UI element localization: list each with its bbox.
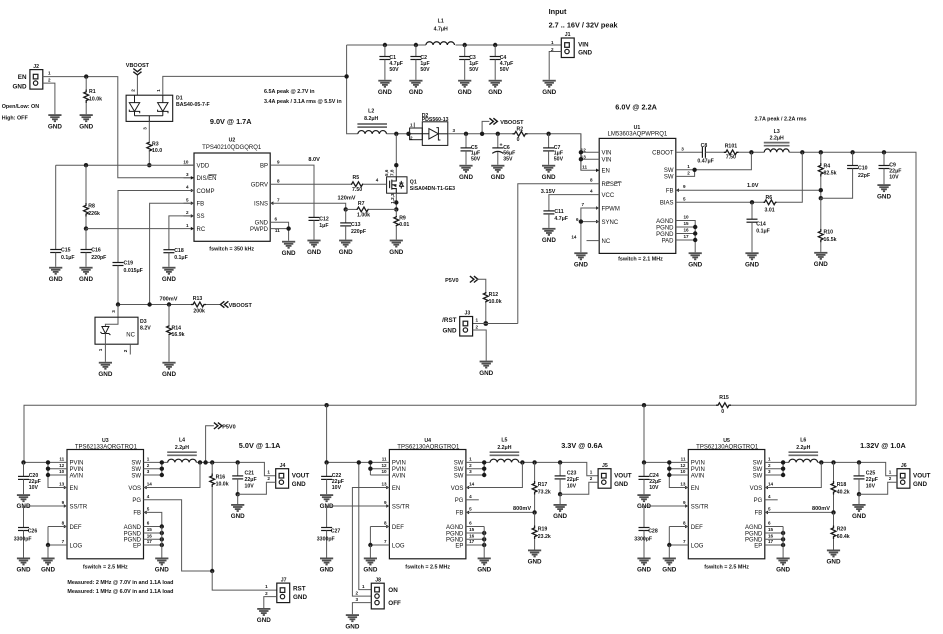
svg-text:8.2V: 8.2V <box>140 326 151 332</box>
junction R3/VDD <box>147 163 151 167</box>
capacitor C9 22uF 10V <box>883 152 885 165</box>
svg-text:R18: R18 <box>837 482 847 488</box>
svg-text:GND: GND <box>98 371 112 378</box>
svg-text:3.3V @ 0.6A: 3.3V @ 0.6A <box>561 441 603 450</box>
wire EN to jumper J8 <box>352 488 389 597</box>
svg-text:2.2μH: 2.2μH <box>497 445 511 451</box>
svg-text:/RST: /RST <box>442 317 456 324</box>
svg-text:1: 1 <box>98 348 103 351</box>
svg-text:C25: C25 <box>866 470 876 476</box>
capacitor C7 1uF 50V <box>546 132 550 136</box>
svg-text:1,2,3: 1,2,3 <box>390 193 395 204</box>
svg-text:C13: C13 <box>351 222 361 228</box>
connector J7 (RST) <box>277 583 290 603</box>
svg-text:GND: GND <box>443 328 457 335</box>
svg-text:PGND: PGND <box>656 232 674 238</box>
wire 6V distribution rail <box>24 405 716 462</box>
svg-text:D1: D1 <box>176 95 183 101</box>
svg-text:U4: U4 <box>424 438 431 444</box>
svg-text:10V: 10V <box>866 483 876 489</box>
svg-text:COMP: COMP <box>197 189 215 195</box>
svg-text:GND: GND <box>307 249 321 256</box>
svg-text:PGND: PGND <box>656 225 674 231</box>
svg-text:SW: SW <box>753 467 763 473</box>
svg-text:R2: R2 <box>517 126 524 132</box>
svg-text:800mV: 800mV <box>513 506 531 512</box>
svg-text:GND: GND <box>255 221 269 227</box>
svg-text:2: 2 <box>267 476 270 481</box>
svg-text:10V: 10V <box>567 483 577 489</box>
wire /RST to RESET <box>473 323 518 325</box>
svg-text:2: 2 <box>476 324 479 329</box>
svg-text:12: 12 <box>381 463 387 468</box>
ground <box>489 81 502 87</box>
capacitor C18 0.1uF <box>163 250 174 253</box>
junction <box>344 207 348 211</box>
wire AGND/PGND/EP to ground <box>466 526 484 528</box>
svg-text:PGND: PGND <box>124 531 142 537</box>
wire J8 pin3 to ground <box>352 603 371 615</box>
wire VOS sense <box>466 462 523 487</box>
svg-text:3: 3 <box>469 469 472 474</box>
svg-text:8.2μH: 8.2μH <box>364 116 378 122</box>
svg-text:50V: 50V <box>500 67 510 73</box>
svg-text:RC: RC <box>197 227 206 233</box>
svg-text:1: 1 <box>265 584 268 589</box>
ground <box>458 81 471 87</box>
svg-text:SS: SS <box>197 214 205 220</box>
svg-text:GND: GND <box>409 89 423 96</box>
wire SW pins join <box>144 461 168 463</box>
IC U4 TPS62130AQRGTRQ1 <box>389 450 466 559</box>
svg-text:3: 3 <box>186 172 189 177</box>
svg-text:50V: 50V <box>469 67 479 73</box>
capacitor C21 22uF 10V (output) <box>237 462 239 476</box>
svg-text:J7: J7 <box>281 577 287 583</box>
svg-text:GND: GND <box>688 262 702 269</box>
svg-text:14: 14 <box>469 482 475 487</box>
wire VOS sense <box>765 462 822 487</box>
svg-text:15: 15 <box>147 527 153 532</box>
svg-text:L2: L2 <box>368 109 374 115</box>
ground <box>99 363 112 369</box>
svg-text:23.2k: 23.2k <box>538 534 551 540</box>
wire L2 to D2/Q1 node <box>387 133 410 135</box>
svg-text:VOUT: VOUT <box>614 473 632 480</box>
wire VCC to C11 <box>549 195 599 211</box>
svg-text:U1: U1 <box>634 125 641 131</box>
svg-text:DEF: DEF <box>70 525 82 531</box>
svg-text:LM53603AQPWPRQ1: LM53603AQPWPRQ1 <box>608 131 668 137</box>
svg-text:0.47μF: 0.47μF <box>697 158 713 164</box>
svg-text:11: 11 <box>582 164 587 169</box>
svg-text:17: 17 <box>684 234 690 239</box>
svg-text:40.2k: 40.2k <box>837 490 850 496</box>
svg-text:1μF: 1μF <box>319 223 328 229</box>
wire SW pins join <box>765 461 789 463</box>
svg-text:GND: GND <box>827 559 841 566</box>
svg-text:16: 16 <box>768 534 774 539</box>
svg-text:C18: C18 <box>174 248 184 254</box>
svg-text:2.7 .. 16V / 32V peak: 2.7 .. 16V / 32V peak <box>549 20 619 29</box>
wire CBOOT row <box>676 151 703 153</box>
svg-text:R16: R16 <box>216 474 226 480</box>
svg-text:VOS: VOS <box>451 486 464 492</box>
svg-text:1: 1 <box>687 164 690 169</box>
svg-text:14: 14 <box>768 482 774 487</box>
wire FB down to 700mV node <box>150 203 194 304</box>
svg-text:226k: 226k <box>88 211 100 217</box>
connector J8 (ON/OFF jumper) <box>371 583 384 609</box>
svg-text:DEF: DEF <box>691 525 703 531</box>
svg-text:1: 1 <box>147 457 150 462</box>
svg-text:TPS40210QDGQRQ1: TPS40210QDGQRQ1 <box>202 145 262 151</box>
svg-text:J4: J4 <box>280 463 286 469</box>
junction /RST node <box>483 321 488 326</box>
inductor L1 4.7uH <box>426 42 455 45</box>
svg-text:220pF: 220pF <box>351 229 366 235</box>
svg-text:16: 16 <box>147 534 153 539</box>
resistor R12 10.0k <box>483 292 488 303</box>
svg-text:VOS: VOS <box>128 486 141 492</box>
resistor R14 16.9k <box>168 305 170 326</box>
svg-text:fswitch = 350 kHz: fswitch = 350 kHz <box>209 246 254 252</box>
svg-text:SW: SW <box>753 461 763 467</box>
svg-text:GND: GND <box>542 89 556 96</box>
svg-text:Measured: 2 MHz @ 7.0V in and: Measured: 2 MHz @ 7.0V in and 1.1A load <box>67 580 173 586</box>
svg-text:EP: EP <box>754 543 762 549</box>
svg-text:2: 2 <box>147 463 150 468</box>
svg-text:EN: EN <box>691 486 699 492</box>
svg-text:R6: R6 <box>766 195 773 201</box>
svg-text:50V: 50V <box>471 156 481 162</box>
svg-text:AVIN: AVIN <box>70 473 84 479</box>
svg-text:TPS62130AQRGTRQ1: TPS62130AQRGTRQ1 <box>696 444 759 450</box>
wire DEF/LOG to ground <box>669 526 688 528</box>
wire PVIN row from rail <box>24 461 68 463</box>
svg-text:17: 17 <box>469 539 475 544</box>
svg-text:FB: FB <box>197 202 205 208</box>
svg-text:11: 11 <box>59 457 64 462</box>
ground <box>478 558 491 564</box>
svg-text:10: 10 <box>59 469 65 474</box>
svg-text:High: OFF: High: OFF <box>2 116 29 122</box>
capacitor C22 22uF 10V (input) <box>326 462 328 476</box>
capacitor C27 3300pF <box>321 528 332 531</box>
svg-text:GND: GND <box>491 174 505 181</box>
svg-text:4: 4 <box>469 494 472 499</box>
svg-text:1: 1 <box>186 223 189 228</box>
capacitor C3 1μF 50V <box>463 43 467 47</box>
svg-text:L3: L3 <box>774 129 780 135</box>
svg-text:U3: U3 <box>102 438 109 444</box>
svg-text:GND: GND <box>320 567 334 574</box>
svg-text:3300pF: 3300pF <box>634 537 652 543</box>
wire SS/TR to C27 <box>327 505 390 507</box>
svg-text:0.1μF: 0.1μF <box>61 255 75 261</box>
svg-text:GND: GND <box>155 567 169 574</box>
svg-text:3.01: 3.01 <box>765 207 775 213</box>
resistor R6 3.01 <box>764 200 777 205</box>
svg-text:SW: SW <box>454 473 464 479</box>
wire U2 GND/PWPD to ground <box>270 222 288 228</box>
ground <box>777 558 790 564</box>
svg-text:2.2μH: 2.2μH <box>770 135 784 141</box>
capacitor C12 1uF <box>309 217 320 220</box>
capacitor C28 3300pF <box>639 528 650 531</box>
svg-text:3.4A peak / 3.1A rms @ 5.5V in: 3.4A peak / 3.1A rms @ 5.5V in <box>264 99 342 105</box>
svg-text:GND: GND <box>614 481 628 488</box>
wire drop to U4 <box>326 405 328 462</box>
svg-text:PWPD: PWPD <box>250 227 269 233</box>
ground <box>491 166 504 172</box>
svg-text:VBOOST: VBOOST <box>500 120 524 126</box>
svg-text:J1: J1 <box>565 32 571 38</box>
svg-text:2: 2 <box>768 463 771 468</box>
svg-text:C28: C28 <box>648 529 658 535</box>
svg-text:GND: GND <box>293 594 307 601</box>
svg-text:8.0V: 8.0V <box>308 157 320 163</box>
svg-text:C12: C12 <box>319 216 329 222</box>
wire PG to J7 <box>144 500 213 571</box>
svg-text:C10: C10 <box>858 166 868 172</box>
svg-text:R3: R3 <box>152 141 159 147</box>
capacitor C5 1uF 50V <box>464 132 468 136</box>
svg-text:ON: ON <box>388 587 398 594</box>
svg-text:R10: R10 <box>824 230 834 236</box>
svg-text:OFF: OFF <box>388 600 401 607</box>
svg-text:BAS40-05-7-F: BAS40-05-7-F <box>176 102 210 108</box>
svg-text:16.5k: 16.5k <box>824 237 837 243</box>
capacitor C6 56uF 35V (electrolytic) <box>496 132 500 136</box>
svg-text:GND: GND <box>48 123 62 130</box>
svg-text:SYNC: SYNC <box>602 220 619 226</box>
svg-text:EN: EN <box>18 74 27 81</box>
svg-text:22μF: 22μF <box>866 477 878 483</box>
svg-text:10: 10 <box>183 159 189 164</box>
ground <box>409 81 422 87</box>
wire GDRV to Q1 gate / resistor R5 7.50 <box>270 183 351 185</box>
svg-text:50V: 50V <box>420 67 430 73</box>
connector J4 (VOUT) <box>276 469 289 489</box>
svg-text:7: 7 <box>683 539 686 544</box>
svg-text:R1: R1 <box>89 89 96 95</box>
svg-text:C21: C21 <box>245 470 255 476</box>
svg-text:fswitch = 2.5 MHz: fswitch = 2.5 MHz <box>83 565 128 571</box>
svg-text:GND: GND <box>574 262 588 269</box>
wire SS to C18 <box>169 216 194 250</box>
svg-text:SS/TR: SS/TR <box>392 504 410 510</box>
wire ISNS net <box>270 203 346 209</box>
svg-text:GND: GND <box>479 370 493 377</box>
svg-text:GND: GND <box>553 513 567 520</box>
svg-text:AGND: AGND <box>446 525 464 531</box>
resistor R19 23.2k (FB divider bottom) <box>534 512 536 525</box>
capacitor C14 0.1uF <box>751 202 753 219</box>
power flag VBOOST (boost output) <box>482 121 489 133</box>
ground <box>528 550 541 556</box>
svg-text:7: 7 <box>62 539 65 544</box>
wire PG stub <box>466 499 479 501</box>
wire EN tied to VIN <box>669 475 688 488</box>
svg-text:PVIN: PVIN <box>70 467 84 473</box>
svg-text:GND: GND <box>528 559 542 566</box>
resistor R3 10.0 (D1 pin3 to VDD) <box>148 121 150 141</box>
svg-text:2: 2 <box>123 349 128 352</box>
svg-text:TPS62133AQRGTRQ1: TPS62133AQRGTRQ1 <box>75 444 138 450</box>
svg-text:GND: GND <box>79 123 93 130</box>
svg-text:7: 7 <box>384 539 387 544</box>
zener diode D3 8.2V <box>105 305 118 327</box>
svg-text:fswitch = 2.5 MHz: fswitch = 2.5 MHz <box>405 565 450 571</box>
svg-text:C26: C26 <box>28 529 38 535</box>
svg-text:3: 3 <box>768 469 771 474</box>
svg-text:1: 1 <box>362 584 365 589</box>
capacitor C20 22uF 10V (input) <box>23 462 25 476</box>
svg-text:220pF: 220pF <box>91 255 106 261</box>
svg-text:5: 5 <box>147 507 150 512</box>
wire J1 pin2 to ground <box>549 52 561 80</box>
svg-text:J3: J3 <box>465 311 471 317</box>
svg-text:16.9k: 16.9k <box>172 332 185 338</box>
wire AGND/PGND/PAD to ground <box>676 221 695 253</box>
ground <box>554 505 567 511</box>
svg-text:SW: SW <box>454 461 464 467</box>
svg-text:12: 12 <box>680 463 686 468</box>
svg-text:GND: GND <box>458 89 472 96</box>
wire output rail <box>519 462 598 475</box>
svg-text:FB: FB <box>666 189 674 195</box>
svg-text:DEF: DEF <box>392 525 404 531</box>
svg-text:PGND: PGND <box>446 531 464 537</box>
svg-text:C11: C11 <box>554 209 563 215</box>
wire FB node 800mV <box>466 511 535 513</box>
svg-text:FB: FB <box>755 511 763 517</box>
svg-text:L6: L6 <box>800 438 806 444</box>
svg-text:VBOOST: VBOOST <box>126 63 150 69</box>
svg-text:10: 10 <box>684 215 690 220</box>
svg-text:7.50: 7.50 <box>352 187 362 193</box>
transistor Q1 SiSA04DN-T1-GE3 drain wire <box>395 134 397 177</box>
svg-text:1: 1 <box>410 123 413 128</box>
svg-text:GND: GND <box>231 513 245 520</box>
svg-text:NC: NC <box>602 239 611 245</box>
svg-text:3.15V: 3.15V <box>541 189 556 195</box>
svg-text:5.0V @ 1.1A: 5.0V @ 1.1A <box>239 441 281 450</box>
ground <box>320 558 333 564</box>
wire output rail <box>196 462 275 475</box>
wire VIN to J8 pin1 <box>359 462 372 589</box>
svg-text:2: 2 <box>186 210 189 215</box>
wire J4 pin2 to output cap <box>238 482 276 494</box>
svg-text:50V: 50V <box>554 156 564 162</box>
wire 6V output rail <box>789 152 916 405</box>
ground <box>162 363 175 369</box>
svg-text:VOS: VOS <box>750 486 763 492</box>
svg-text:14: 14 <box>571 235 577 240</box>
svg-text:10: 10 <box>680 469 686 474</box>
svg-text:13: 13 <box>59 482 65 487</box>
svg-text:BIAS: BIAS <box>660 201 674 207</box>
wire SW pins to node <box>676 152 752 170</box>
svg-text:GND: GND <box>282 250 296 257</box>
svg-text:4: 4 <box>376 177 379 182</box>
resistor R7 1.00k <box>346 208 357 210</box>
svg-text:PAD: PAD <box>662 238 675 244</box>
svg-text:12: 12 <box>59 463 65 468</box>
svg-text:3300pF: 3300pF <box>317 537 335 543</box>
wire NC stub <box>587 240 600 242</box>
svg-text:GND: GND <box>162 276 176 283</box>
svg-text:PG: PG <box>754 498 763 504</box>
wire PVIN/AVIN join <box>668 462 670 475</box>
svg-text:3: 3 <box>681 146 684 151</box>
wire input rail <box>347 44 426 46</box>
svg-text:2.7A peak / 2.2A rms: 2.7A peak / 2.2A rms <box>755 116 807 122</box>
svg-text:R5: R5 <box>353 175 360 181</box>
svg-text:2.2μH: 2.2μH <box>796 445 810 451</box>
svg-text:10: 10 <box>381 469 387 474</box>
wire DEF/LOG to ground <box>370 526 389 528</box>
svg-text:VOUT: VOUT <box>913 473 931 480</box>
svg-text:120mV: 120mV <box>338 195 356 201</box>
connector J3 (/RST) <box>460 317 473 337</box>
svg-text:GND: GND <box>745 262 759 269</box>
svg-text:EP: EP <box>455 543 463 549</box>
svg-text:EN: EN <box>602 169 610 175</box>
inductor L3 2.2uH <box>764 149 789 152</box>
svg-text:+: + <box>500 143 503 149</box>
ground <box>480 362 493 368</box>
svg-text:SS/TR: SS/TR <box>70 504 88 510</box>
wire SW pins join <box>466 461 490 463</box>
svg-text:GND: GND <box>49 276 63 283</box>
svg-text:10.0k: 10.0k <box>89 97 102 103</box>
wire J2 pin2 to ground <box>43 83 55 114</box>
svg-text:0.01: 0.01 <box>399 222 409 228</box>
svg-text:C27: C27 <box>331 529 341 535</box>
svg-text:3: 3 <box>147 469 150 474</box>
svg-text:J2: J2 <box>33 64 39 70</box>
svg-text:J8: J8 <box>375 577 381 583</box>
IC U2 TPS40210QDGQRQ1 <box>194 153 270 241</box>
svg-text:GND: GND <box>877 193 891 200</box>
svg-text:RESET: RESET <box>602 182 622 188</box>
svg-text:GND: GND <box>662 567 676 574</box>
svg-text:0: 0 <box>517 137 520 143</box>
junction D1 feed <box>344 74 348 78</box>
wire J6 pin2 to output cap <box>859 482 897 494</box>
svg-text:GND: GND <box>17 567 31 574</box>
wire output rail <box>818 462 897 475</box>
svg-text:PGND: PGND <box>745 531 763 537</box>
svg-text:FB: FB <box>456 511 464 517</box>
svg-text:VBOOST: VBOOST <box>229 303 253 309</box>
svg-text:LOG: LOG <box>392 543 405 549</box>
svg-text:PVIN: PVIN <box>691 467 705 473</box>
resistor R4 82.5k <box>820 152 822 163</box>
ground <box>574 253 587 259</box>
svg-text:FPWM: FPWM <box>602 206 620 212</box>
ground <box>346 615 359 621</box>
svg-text:SW: SW <box>131 473 141 479</box>
svg-text:1: 1 <box>267 470 270 475</box>
svg-text:PVIN: PVIN <box>392 467 406 473</box>
svg-text:R9: R9 <box>399 215 406 221</box>
transistor Q1 SiSA04DN-T1-GE3 <box>387 177 407 193</box>
svg-text:LOG: LOG <box>691 543 704 549</box>
svg-text:0: 0 <box>721 409 724 415</box>
